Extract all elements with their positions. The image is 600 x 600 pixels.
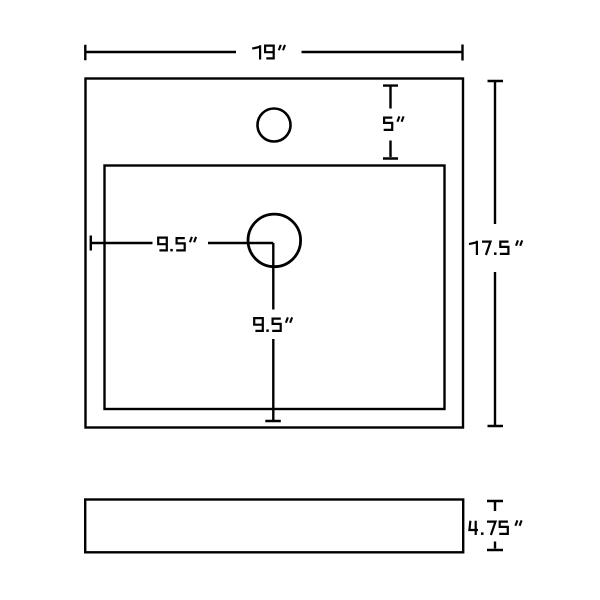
dimension 4.75in label	[469, 520, 521, 535]
sink outer rim rectangle (top view)	[86, 79, 464, 428]
dimension 19in label	[252, 45, 285, 60]
dimension 4.75in: side height line with end ticks	[487, 501, 503, 550]
dimension 17.5in label	[469, 240, 522, 255]
basin inner rectangle (top view)	[105, 166, 445, 410]
dimension 9.5in horizontal: drain offset from left, tick at left	[91, 236, 273, 251]
faucet hole circle	[258, 109, 291, 142]
drain hole circle	[248, 214, 301, 267]
dimension 9.5in horizontal label	[158, 237, 196, 252]
dimension 17.5in: height line with end ticks	[488, 81, 504, 426]
dimension 9.5in vertical: drain offset from bottom, tick at bottom	[265, 243, 281, 421]
dimension 5in: faucet offset line with end ticks	[383, 86, 398, 159]
sink side view rectangle	[85, 500, 463, 553]
dimension 19in: width line with end ticks	[85, 45, 462, 61]
dimension 5in label	[384, 116, 404, 129]
dimension 9.5in vertical label	[254, 317, 292, 332]
